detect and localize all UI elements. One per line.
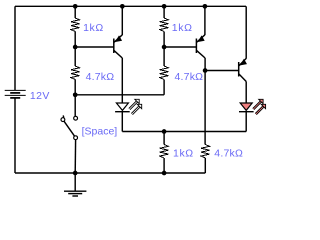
junction Q2 collector / Q3 base (203, 68, 208, 73)
transistor Q2 bar (195, 39, 197, 54)
transistor Q1 collector diagonal (114, 50, 123, 58)
resistor R2 4.7k zigzag (71, 66, 80, 80)
wire Q2 base (164, 46, 196, 48)
resistor R4 4.7k zigzag (160, 66, 169, 80)
wire LED1 to bottom resistors (y=131.5) (122, 131, 246, 133)
wire Q2 collector down to R6 (204, 58, 206, 145)
transistor Q2 emitter arrow (198, 36, 204, 41)
wire switch top (74, 95, 76, 117)
transistor Q1 emitter arrow (116, 36, 122, 41)
transistor Q1 bar (113, 39, 115, 54)
svg-text:4.7kΩ: 4.7kΩ (214, 147, 243, 159)
resistor R1 1k zigzag (71, 18, 80, 32)
resistor R1 bottom lead (74, 32, 76, 48)
LED D1 triangle (116, 103, 128, 110)
wire Q3 emitter to rail (right leg) (245, 6, 247, 58)
svg-text:12V: 12V (30, 90, 50, 102)
wire Q3 collector to LED2 (245, 82, 247, 104)
wire Q3 base (205, 70, 238, 72)
transistor Q2 emitter diagonal (196, 35, 205, 43)
battery B1 top lead (14, 6, 16, 90)
svg-text:1kΩ: 1kΩ (173, 147, 194, 159)
wire top rail (15, 5, 246, 7)
svg-text:4.7kΩ: 4.7kΩ (175, 71, 204, 83)
resistor R5 1k zigzag (160, 145, 169, 159)
resistor R6 4.7k zigzag (bottom) (201, 145, 210, 159)
resistor R5 bottom lead (163, 158, 165, 173)
switch SW1 top terminal (74, 116, 78, 120)
wire switch bottom (74, 140, 76, 173)
LED D2 arrows (lit) (253, 99, 266, 114)
LED D1 cathode bar (115, 111, 130, 113)
resistor R2 4.7k top lead (74, 47, 76, 66)
wire bottom rail (15, 172, 205, 174)
resistor R6 bottom lead (204, 158, 206, 173)
junction Q2 base node (162, 45, 167, 50)
switch SW1 lever (64, 121, 75, 136)
resistor R3 bottom lead (163, 32, 165, 48)
LED D1 arrows (129, 99, 142, 114)
junction top rail / R1 (73, 4, 78, 9)
junction top rail / Q2 emitter (203, 4, 208, 9)
switch SW1 lever tip contact (61, 118, 65, 122)
LED D2 cathode bar (239, 111, 254, 113)
transistor Q3 bar (238, 62, 240, 77)
ground lead (74, 173, 76, 191)
battery B1 12V (5, 90, 26, 95)
ground symbol (64, 190, 86, 192)
junction top rail / R3 (162, 4, 167, 9)
wire LED1 cathode down (121, 112, 123, 132)
switch SW1 tick (62, 115, 65, 117)
resistor R5 1k top lead (bottom row) (163, 132, 165, 145)
wire Q1 emitter to rail (121, 6, 123, 35)
transistor Q3 collector diagonal (239, 74, 247, 82)
svg-text:1kΩ: 1kΩ (172, 22, 193, 34)
svg-text:4.7kΩ: 4.7kΩ (86, 71, 115, 83)
wire Q1 base (75, 46, 114, 48)
junction R2 bottom / switch node (73, 92, 78, 97)
resistor R4 4.7k top lead (163, 47, 165, 66)
transistor Q3 emitter diagonal (239, 58, 247, 66)
resistor R2 bottom lead (74, 80, 76, 95)
transistor Q2 collector diagonal (196, 50, 205, 58)
wire Q1 collector to LED1 (121, 58, 123, 103)
junction Q1 base node (73, 45, 78, 50)
junction bottom rail / R5 (162, 171, 167, 176)
wire Q2 emitter to rail (204, 6, 206, 35)
wire LED2 cathode down (245, 112, 247, 132)
junction top rail / Q1 emitter (120, 4, 125, 9)
resistor R1 1k top lead (74, 6, 76, 18)
switch SW1 bottom terminal (74, 136, 78, 140)
resistor R4 bottom lead (163, 80, 165, 95)
junction LED cathode rail / R5 (162, 129, 167, 134)
resistor R3 1k zigzag (160, 18, 169, 32)
svg-text:[Space]: [Space] (82, 126, 118, 138)
resistor R3 1k top lead (second column) (163, 6, 165, 18)
wire base node Q1 to R3 bottom (horizontal y=94.8) (75, 94, 164, 96)
junction bottom rail / switch / ground (73, 171, 78, 176)
battery B1 bottom lead (14, 98, 16, 173)
svg-text:1kΩ: 1kΩ (83, 22, 104, 34)
LED D2 triangle (lit) (240, 103, 252, 110)
transistor Q3 emitter arrow (241, 60, 247, 65)
transistor Q1 emitter diagonal (114, 35, 123, 43)
